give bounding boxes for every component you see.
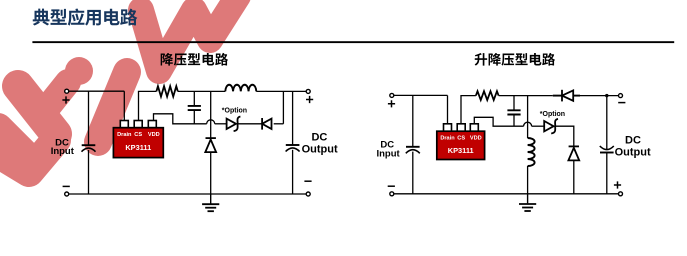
wire: L2 to bottom rail (buck-boost) (527, 166, 529, 194)
capacitor C6 output electrolytic (buck-boost) (600, 152, 614, 154)
wire: top rail input+ to Drain corner (buck-boost) (394, 94, 448, 96)
svg-text:Input: Input (51, 146, 75, 157)
wire: Drain pin drop (buck-boost) (447, 95, 449, 124)
wire: option branch riser to top rail (buck) (282, 91, 284, 123)
svg-text:VDD: VDD (148, 132, 160, 138)
heading: 降压型电路 (buck) (161, 53, 228, 66)
wire: CS pin up and over to R1 (buck) (139, 91, 157, 120)
label: plus sign output (buck-boost) (614, 181, 621, 188)
diode D1 freewheel (buck) (206, 137, 216, 139)
wire: crossover hop over diode branch (buck) (207, 120, 215, 124)
node: D2 curved cathode bar (buck) (234, 117, 241, 132)
svg-text:Drain: Drain (117, 132, 132, 138)
svg-text:Output: Output (615, 147, 651, 159)
node: output + terminal (buck) (306, 89, 310, 93)
wire: input cap bottom lead (buck) (88, 150, 90, 194)
svg-text:DC: DC (625, 135, 641, 147)
capacitor C5 (buck-boost) (507, 110, 520, 114)
wire: hop to D5 (buck-boost) (532, 125, 545, 127)
svg-text:*Option: *Option (222, 108, 247, 115)
pin 3 VDD U2 (buck-boost) (470, 124, 478, 132)
svg-text:Input: Input (376, 148, 400, 159)
diode D6 (buck-boost) (569, 145, 579, 147)
wire: D2 to D3 (buck) (238, 123, 262, 125)
label: minus sign output (buck) (304, 180, 311, 182)
wire: D6 to bottom rail (buck-boost) (573, 161, 575, 194)
wire: C2 bottom lead (buck) (193, 110, 195, 124)
wire: Drain pin drop (buck) (123, 91, 125, 121)
svg-text:KP3111: KP3111 (448, 146, 474, 155)
label: minus sign input (buck-boost) (388, 185, 395, 187)
node: junction dot output rail (buck-boost) (605, 94, 608, 97)
inductor L1 (buck) (225, 85, 256, 92)
label: minus sign output (buck-boost) (618, 102, 625, 104)
wire: output riser bottom lead (buck) (292, 150, 294, 194)
wire: D4 anode lead (buck-boost) (553, 95, 562, 97)
pin 2 CS U1 (buck) (134, 121, 142, 128)
wire: input cap top lead (buck) (88, 91, 90, 145)
svg-text:Drain: Drain (440, 136, 455, 142)
node: input + terminal (buck-boost) (390, 93, 394, 97)
node: input - terminal (buck) (65, 192, 69, 196)
wire: rail D4 to output node (buck-boost) (580, 95, 619, 97)
wire: output riser bottom lead (buck-boost) (606, 153, 608, 194)
svg-text:KP3111: KP3111 (125, 143, 151, 152)
wire: input cap bottom lead (buck-boost) (412, 152, 414, 194)
node: D5 curved cathode bar (buck-boost) (551, 119, 558, 134)
horizontal rule under title (32, 41, 674, 43)
label: plus sign input (buck-boost) (388, 100, 395, 107)
wire: bottom rail (buck) (69, 193, 307, 195)
wire: VDD pin step wire (buck) (154, 114, 207, 124)
svg-text:Output: Output (302, 143, 338, 155)
node: input + terminal (buck) (65, 89, 69, 93)
resistor R2 (buck-boost) (476, 91, 499, 100)
wire: output riser top lead (buck) (292, 91, 294, 145)
wire: crossover hop over inductor branch (buck-boost) (524, 122, 532, 126)
wire: D3 to rail riser (buck) (274, 123, 284, 125)
diode D5 zener option (buck-boost) (544, 121, 553, 131)
wire: C5 bottom lead (buck-boost) (513, 115, 515, 127)
diode D3 option (buck) (262, 119, 271, 129)
wire: D1 to bottom rail (buck) (210, 153, 212, 194)
node: input - terminal (buck-boost) (390, 192, 394, 196)
pin 2 CS U2 (buck-boost) (457, 124, 465, 132)
capacitor C1 input electrolytic (buck) (82, 144, 96, 146)
title: 典型应用电路 (33, 8, 138, 25)
node: output - terminal (buck) (306, 192, 310, 196)
label: plus sign input (buck) (62, 96, 69, 103)
IC U1 (buck) KP3111 body (113, 128, 163, 158)
svg-text:*Option: *Option (540, 111, 565, 118)
diode D2 zener option (buck) (227, 119, 236, 129)
wire: input cap top lead (buck-boost) (412, 95, 414, 146)
inductor L2 (buck-boost) (528, 138, 535, 166)
heading: 升降压型电路 (buck-boost) (475, 53, 555, 66)
wire: VDD pin step wire (buck-boost) (474, 117, 523, 126)
capacitor C3 output electrolytic (buck) (286, 144, 300, 146)
svg-text:CS: CS (457, 136, 465, 142)
wire: freewheel branch from rail (buck) (210, 91, 212, 138)
wire: output riser top lead (buck-boost) (606, 96, 608, 150)
pin 1 Drain U1 (buck) (120, 121, 128, 128)
svg-text:CS: CS (134, 132, 142, 138)
node: output - terminal (buck-boost) (619, 94, 623, 98)
label: minus sign input (buck) (63, 185, 70, 187)
wire: D4 cathode lead (buck-boost) (573, 95, 580, 97)
capacitor C4 input electrolytic (buck-boost) (406, 146, 420, 148)
ground GND (buck-boost) (527, 194, 529, 204)
wire: CS pin up and over to R2 (buck-boost) (461, 96, 476, 124)
label: plus sign output (buck) (306, 96, 313, 103)
wire: hop to D2 (buck) (215, 123, 227, 125)
svg-text:VDD: VDD (470, 136, 482, 142)
wire: rail L1 to output+ (buck) (256, 90, 306, 92)
wire: C2 top lead (buck) (193, 91, 195, 106)
wire: switch-node riser (buck-boost) (527, 96, 529, 138)
IC U2 (buck-boost) KP3111 body (437, 131, 485, 159)
resistor R1 (buck) (156, 86, 177, 96)
pin 3 VDD U1 (buck) (148, 121, 156, 128)
diode D4 flyback (buck-boost) (562, 90, 573, 100)
ground GND (buck) (210, 194, 212, 204)
wire: top rail from input+ to Drain corner (buck) (69, 90, 125, 92)
wire: rail R1 to L1 (buck) (178, 90, 226, 92)
node: output + terminal (buck-boost) (619, 192, 623, 196)
watermark Kiwi (rotated red logo text, drawn as strokes) (0, 0, 238, 172)
wire: C5 top lead (buck-boost) (513, 96, 515, 111)
wire: bottom rail (buck-boost) (394, 193, 619, 195)
svg-text:DC: DC (311, 131, 327, 143)
wire: rail R2 to D4 (buck-boost) (499, 95, 553, 97)
pin 1 Drain U2 (buck-boost) (444, 124, 452, 132)
capacitor C2 (buck) (188, 106, 201, 110)
wire: D5 to D6 corner (buck-boost) (556, 126, 574, 146)
